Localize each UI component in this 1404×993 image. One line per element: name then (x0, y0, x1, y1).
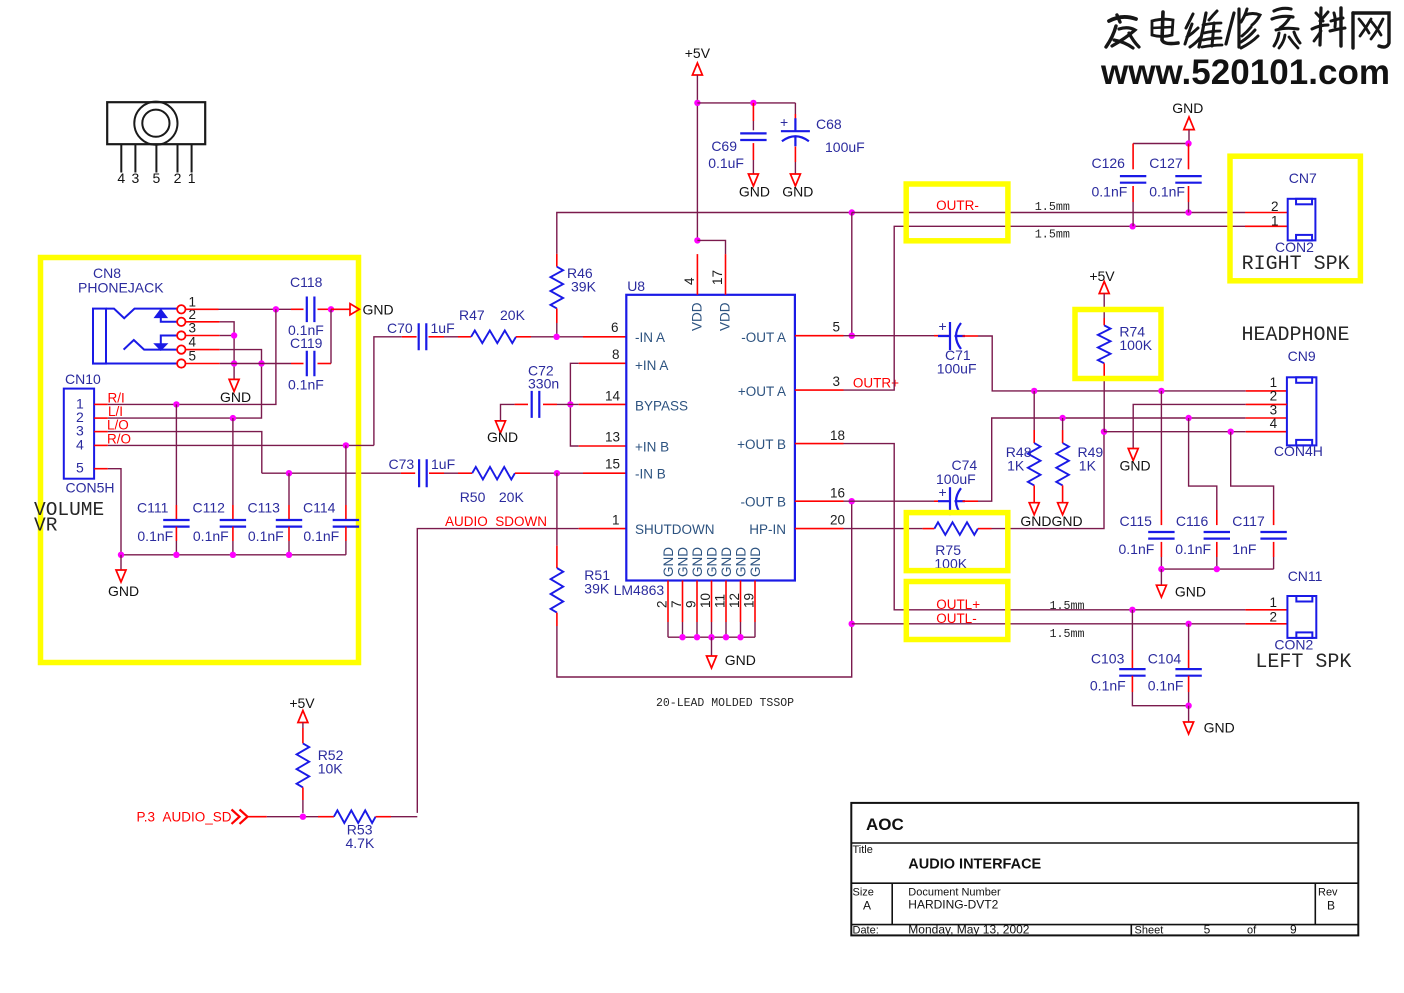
pin number 1 (CN10) (76, 395, 84, 411)
svg-text:1.5mm: 1.5mm (1050, 599, 1085, 613)
svg-text:3: 3 (832, 374, 840, 389)
junction +5V / decoupling branch (694, 100, 700, 106)
wire C116 jog (1189, 418, 1217, 510)
svg-text:SHUTDOWN: SHUTDOWN (635, 522, 715, 537)
label R49 (1078, 444, 1104, 460)
svg-text:CON4H: CON4H (1274, 443, 1323, 459)
svg-text:C113: C113 (248, 500, 281, 516)
pin name BYPASS (635, 399, 688, 414)
label LM4863 (614, 582, 665, 598)
wire R48 top stub (1033, 430, 1035, 443)
pin stub GND bottom 11 (725, 581, 727, 623)
wire R52 top (302, 723, 304, 729)
junction C116 tap (1185, 415, 1191, 421)
wire AUDIO_SDOWN (417, 529, 578, 813)
highlight box OUTR- (906, 184, 1008, 241)
wire R48 top (1033, 391, 1035, 430)
pin number 1 (CN11) (1269, 595, 1277, 610)
title block Date label (853, 925, 879, 937)
net label AUDIO_SDOWN (445, 514, 547, 529)
label C68 (816, 116, 842, 132)
pin number 2 (CN7) (1271, 199, 1279, 214)
svg-text:-IN A: -IN A (635, 330, 665, 345)
svg-text:CN10: CN10 (65, 371, 101, 387)
wire GND bottom 7 tail (682, 622, 684, 637)
title block AOC (866, 815, 904, 834)
junction VDD branch (694, 237, 700, 243)
svg-text:10K: 10K (318, 761, 344, 777)
wire R46 bottom stub (556, 308, 558, 323)
wire OUTL+ to CN11 pin1 (844, 444, 1246, 610)
pin number 1 (CN8) (189, 294, 197, 309)
power symbol +5V (R52) (289, 695, 315, 723)
label C111 (137, 500, 169, 516)
wire C126 bottom (1132, 202, 1134, 226)
value C127 0.1nF (1149, 184, 1185, 200)
value C117 1nF (1232, 541, 1256, 557)
pin number 1 (612, 513, 620, 528)
svg-text:+OUT B: +OUT B (737, 437, 786, 452)
wire C119 right stub (318, 363, 332, 365)
capacitor C114 (333, 520, 359, 527)
wire GND bus bottom (668, 636, 755, 638)
label C73 (389, 456, 415, 472)
svg-text:P.3 AUDIO_SD: P.3 AUDIO_SD (137, 810, 232, 825)
label GND (C118) (363, 302, 394, 318)
junction OUTR- riser (849, 209, 855, 215)
connector CN9 (1287, 377, 1317, 445)
svg-text:5: 5 (153, 170, 161, 186)
wire R/I (108, 309, 276, 404)
svg-text:C70: C70 (387, 320, 413, 336)
connector CN11 (1287, 596, 1316, 638)
wire OUTR+ to CN7 pin1 (844, 226, 1246, 390)
pin 3 stub +OUT A (795, 389, 844, 391)
value C71 100uF (937, 361, 977, 377)
wire R74 bottom stub (1103, 363, 1105, 377)
svg-text:CN9: CN9 (1288, 348, 1316, 364)
svg-text:4.7K: 4.7K (346, 835, 375, 851)
svg-text:1uF: 1uF (431, 456, 455, 472)
resistor R52 (297, 743, 310, 787)
pin stub CN9 pin3 (1246, 417, 1287, 419)
value R51 39K (584, 581, 610, 597)
pin number 2 (CN8) (189, 307, 197, 322)
title block Rev label (1318, 887, 1338, 899)
svg-text:0.1nF: 0.1nF (1119, 541, 1155, 557)
svg-text:LM4863: LM4863 (614, 582, 665, 598)
capacitor C112 (220, 520, 246, 527)
label C127 (1149, 155, 1183, 171)
pin stub GND bottom 2 (667, 581, 669, 623)
svg-text:13: 13 (605, 430, 620, 445)
wire C73 left stub (401, 472, 415, 474)
svg-text:-IN B: -IN B (635, 467, 666, 482)
wire gnd arrow right stub (331, 308, 350, 310)
wire R/O riser to C70 (374, 337, 402, 446)
pin name GND (bottom 2) (676, 547, 691, 577)
value C113 0.1nF (248, 528, 284, 544)
svg-text:1: 1 (1271, 214, 1279, 229)
wire CN9 pin4 row (1104, 431, 1246, 433)
svg-text:VR: VR (34, 515, 58, 537)
svg-text:Title: Title (853, 844, 873, 856)
connector footprint drawing (phone jack top view) (107, 102, 205, 145)
svg-text:3: 3 (189, 321, 197, 336)
junction pin3 gnd chain (231, 332, 237, 338)
ground arrow up (CN7 filter) (1184, 117, 1194, 130)
net label OUTR+ (853, 376, 899, 391)
wire gnd rail drop (120, 555, 122, 570)
svg-text:C126: C126 (1092, 155, 1126, 171)
ground arrow right (C118) (350, 304, 359, 315)
ground (R49) (1058, 503, 1068, 515)
svg-text:2: 2 (1269, 610, 1277, 625)
svg-text:100uF: 100uF (937, 361, 977, 377)
label C104 (1148, 651, 1182, 667)
label C114 (303, 500, 336, 516)
svg-text:16: 16 (830, 486, 845, 501)
svg-text:HARDING-DVT2: HARDING-DVT2 (908, 898, 998, 912)
capacitor C103 (1119, 669, 1145, 676)
pin name VDD (pin4) (690, 302, 705, 331)
net label P.3 AUDIO_SD (137, 810, 232, 825)
wire R74 top (1103, 294, 1105, 319)
svg-text:0.1nF: 0.1nF (1148, 678, 1184, 694)
wire C103 bottom stub (1131, 676, 1133, 692)
pin name -IN A (635, 330, 665, 345)
value C70 1uF (431, 320, 455, 336)
capacitor C68 (polarized) (781, 118, 810, 146)
pin number 3 (CN10) (76, 423, 84, 439)
label R52 (318, 747, 344, 763)
wire R52 top stub (302, 728, 304, 743)
pin number 7 (669, 600, 684, 608)
label R51 (584, 567, 610, 583)
label C117 (1232, 513, 1265, 529)
net label OUTR- (936, 198, 979, 213)
capacitor C117 (1260, 532, 1286, 539)
svg-text:8: 8 (612, 347, 620, 362)
svg-text:CON5H: CON5H (66, 480, 115, 496)
svg-text:1: 1 (188, 170, 196, 186)
pin circle CN8 pin2 (177, 318, 185, 326)
pin 14 stub BYPASS (579, 403, 627, 405)
wire C112 bottom stub (232, 527, 234, 541)
title block size A (863, 899, 871, 913)
junction HP net / R74 (1101, 429, 1107, 435)
wire R49 top stub (1062, 430, 1064, 443)
pin number 2 (CN9) (1270, 389, 1278, 404)
svg-text:GND: GND (487, 429, 518, 445)
capacitor C127 (1175, 176, 1201, 183)
junction C113 tap (286, 470, 292, 476)
value R48 1K (1007, 458, 1025, 474)
wire C68 bottom stub (794, 147, 796, 163)
wire GND bus to ground (711, 637, 713, 656)
capacitor C104 (1175, 669, 1201, 676)
net label R/I (108, 391, 125, 406)
note 20-LEAD MOLDED TSSOP (656, 697, 794, 710)
value R49 1K (1079, 458, 1097, 474)
net label OUTL+ (936, 597, 980, 612)
pin stub GND bottom 10 (711, 581, 713, 623)
wire C71 to CN9 pin1 (978, 336, 1246, 391)
highlight box R74 (1075, 310, 1161, 379)
pin name GND (bottom 4) (705, 547, 720, 577)
label CON5H (66, 480, 115, 496)
wire GND bottom 11 tail (725, 622, 727, 637)
wire OUTR- to CN7 pin2 (852, 212, 1245, 214)
svg-text:7: 7 (669, 600, 684, 608)
wire L/O to -IN B (108, 432, 262, 474)
wire R47 right stub (516, 336, 531, 338)
wire OUTL- to CN11 pin2 (852, 623, 1246, 625)
svg-text:VDD: VDD (690, 302, 705, 331)
ground (C72) (487, 421, 518, 445)
svg-text:GNDGND: GNDGND (1020, 513, 1082, 529)
pin name SHUTDOWN (635, 522, 715, 537)
junction pin4/pin5 tie (258, 360, 264, 366)
wire R75 left stub (923, 528, 935, 530)
wire C117 bottom stub (1273, 542, 1275, 557)
resistor R48 (1028, 443, 1041, 485)
svg-text:GND: GND (782, 184, 813, 200)
pin stub CN9 pin2 (1246, 403, 1287, 405)
label CON2 (CN7) (1275, 239, 1314, 255)
junction -IN B / R51 (554, 470, 560, 476)
wire C126 bottom stub (1132, 186, 1134, 202)
pin number 2 (655, 600, 670, 608)
svg-text:0.1uF: 0.1uF (708, 155, 744, 171)
svg-text:39K: 39K (584, 581, 610, 597)
title block frame (851, 803, 1358, 936)
resistor R51 (551, 568, 564, 613)
capacitor C69 (740, 133, 766, 140)
wire R50 right stub (515, 472, 530, 474)
label R50 (460, 489, 486, 505)
wire R53 to riser (391, 816, 417, 818)
phonejack CN8 switch arrow (pin3 arm) (154, 336, 177, 351)
svg-text:1nF: 1nF (1232, 541, 1256, 557)
label C72 (528, 363, 554, 379)
pin number 3 (CN8) (189, 321, 197, 336)
note 1.5mm (OUTL+) (1050, 599, 1085, 613)
wire R47 left stub (458, 336, 471, 338)
wire C72 right stub (543, 403, 557, 405)
label CN9 (1288, 348, 1316, 364)
svg-text:GND: GND (363, 302, 394, 318)
wire C68 top (794, 103, 796, 114)
pin stub CN9 pin4 (1246, 431, 1287, 433)
resistor R75 (934, 522, 978, 535)
junction R52/R53 (300, 814, 306, 820)
label R53 (347, 822, 373, 838)
wire C113 bottom (288, 541, 290, 555)
svg-text:GND: GND (748, 547, 763, 577)
wire R52 bottom stub (302, 787, 304, 800)
label C126 (1092, 155, 1126, 171)
capacitor C74 (polarized) (938, 487, 965, 515)
pin number 3 (CN9) (1270, 402, 1278, 417)
pin number 20 (830, 513, 845, 528)
svg-text:GND: GND (108, 583, 139, 599)
svg-text:GND: GND (1172, 100, 1203, 116)
junction C114 tap (343, 442, 349, 448)
svg-text:10: 10 (698, 593, 713, 608)
pin name +OUT A (738, 384, 786, 399)
junction R49 tap (1059, 415, 1065, 421)
pin number 17 (710, 270, 725, 285)
svg-text:A: A (863, 899, 871, 913)
value C111 0.1nF (137, 528, 173, 544)
wire R51 to OUTL- (557, 501, 852, 677)
junction C127 tap (1185, 209, 1191, 215)
svg-text:14: 14 (605, 389, 621, 404)
capacitor C73 (419, 459, 427, 487)
capacitor C111 (163, 520, 189, 527)
junction gnd rail x289 (286, 552, 292, 558)
pin number 18 (830, 428, 845, 443)
junction GND bus x726 (723, 634, 729, 640)
wire C70 left stub (402, 336, 417, 338)
value R50 20K (499, 489, 525, 505)
svg-text:GND: GND (1204, 720, 1235, 736)
connector CN10 body (64, 389, 94, 479)
svg-text:C68: C68 (816, 116, 842, 132)
svg-text:PHONEJACK: PHONEJACK (78, 280, 164, 296)
pin 5 stub -OUT A (795, 335, 844, 337)
svg-text:100K: 100K (1119, 337, 1152, 353)
pin stub CN10 pin4 (94, 444, 108, 446)
resistor R50 (472, 467, 515, 480)
svg-text:C116: C116 (1176, 513, 1209, 529)
svg-text:2: 2 (174, 170, 182, 186)
label C115 (1120, 513, 1153, 529)
label CN10 (65, 371, 101, 387)
wire AUDIO_SD to R53 (267, 816, 318, 818)
svg-text:+5V: +5V (1089, 268, 1115, 284)
wire C71 left stub (934, 335, 949, 337)
pin 16 stub -OUT B (795, 500, 844, 502)
wire C111 top (175, 404, 177, 505)
pin number 19 (742, 593, 757, 608)
svg-text:0.1nF: 0.1nF (1092, 184, 1128, 200)
svg-text:Monday, May 13, 2002: Monday, May 13, 2002 (908, 923, 1030, 937)
label C71 (945, 347, 971, 363)
title block Title label (853, 844, 873, 856)
pin stub CN7 pin1 (1245, 225, 1288, 227)
pin name GND (bottom 1) (661, 547, 676, 577)
value C116 0.1nF (1175, 541, 1211, 557)
value C119 0.1nF (288, 377, 324, 393)
svg-text:www.520101.com: www.520101.com (1100, 53, 1390, 92)
svg-text:B: B (1327, 899, 1335, 913)
svg-text:GND: GND (705, 547, 720, 577)
svg-text:1.5mm: 1.5mm (1035, 228, 1070, 242)
pin stub CN8 pin2 (186, 321, 220, 323)
svg-text:C118: C118 (290, 274, 323, 290)
wire C69 bottom stub (752, 143, 754, 160)
junction GND bus x740.5 (737, 634, 743, 640)
pin name +IN B (635, 440, 669, 455)
pin circle CN8 pin5 (177, 359, 185, 367)
wire C126 top stub (1132, 144, 1134, 170)
pin number 4 (682, 277, 697, 285)
wire CN8 pin3 link (220, 335, 234, 337)
junction C103/C104 gnd (1185, 703, 1191, 709)
svg-text:5: 5 (189, 349, 197, 364)
wire C74 right stub (963, 500, 979, 502)
svg-text:4: 4 (117, 170, 125, 186)
ground (CN9 pin2) (1120, 449, 1151, 474)
svg-text:GND: GND (734, 547, 749, 577)
phonejack CN8 sleeve body (93, 309, 106, 364)
wire R51 top (556, 473, 558, 546)
pin stub CN7 pin2 (1245, 212, 1288, 214)
wire C72 to BYPASS (557, 403, 579, 405)
svg-text:19: 19 (742, 593, 757, 608)
svg-text:0.1nF: 0.1nF (1090, 678, 1126, 694)
wire R53 right stub (376, 816, 391, 818)
wire CN10 pin5 to gnd rail (108, 469, 121, 555)
value C73 1uF (431, 456, 455, 472)
svg-text:330n: 330n (528, 376, 559, 392)
svg-text:11: 11 (713, 594, 728, 608)
title block date value (908, 923, 1030, 937)
wire GND bottom 2 tail (667, 622, 669, 637)
resistor R46 (551, 267, 564, 309)
svg-text:of: of (1247, 925, 1257, 937)
wire C103 bottom (1132, 692, 1188, 706)
pin stub GND bottom 9 (696, 581, 698, 623)
pin circle CN8 pin3 (177, 331, 185, 339)
value R46 39K (571, 279, 597, 295)
svg-text:HEADPHONE: HEADPHONE (1242, 324, 1350, 347)
connector footprint pins (121, 144, 191, 172)
junction -IN A / R46 (553, 334, 559, 340)
svg-text:R/O: R/O (107, 432, 131, 447)
pin stub CN10 pin3 (94, 431, 108, 433)
pin 1 stub SHUTDOWN (579, 528, 627, 530)
pin stub CN10 pin5 (94, 468, 108, 470)
value C126 0.1nF (1092, 184, 1128, 200)
wire +IN A to BYPASS to +IN B (570, 363, 578, 446)
svg-text:GND: GND (676, 547, 691, 577)
svg-text:C114: C114 (303, 500, 336, 516)
net label L/O (107, 418, 129, 433)
junction R48 tap (1031, 388, 1037, 394)
pin stub CN10 pin2 (94, 417, 108, 419)
svg-text:Size: Size (853, 887, 874, 899)
svg-text:LEFT SPK: LEFT SPK (1255, 651, 1351, 674)
wire C104 top stub (1188, 650, 1190, 669)
svg-text:C127: C127 (1149, 155, 1183, 171)
junction pin5 gnd chain (231, 360, 237, 366)
value R47 20K (500, 307, 526, 323)
value R74 100K (1119, 337, 1152, 353)
value C74 100uF (936, 471, 976, 487)
junction C111 tap (173, 401, 179, 407)
pin number 4 (CN8) (189, 335, 197, 350)
svg-text:-OUT B: -OUT B (740, 495, 786, 510)
pin number 3 (832, 374, 840, 389)
ground (C68) (782, 174, 813, 200)
wire C127 bottom (1188, 202, 1190, 213)
junction -OUT B node (849, 498, 855, 504)
op-amp U8 LM4863 body (626, 295, 795, 581)
wire R46 top stub (556, 254, 558, 267)
